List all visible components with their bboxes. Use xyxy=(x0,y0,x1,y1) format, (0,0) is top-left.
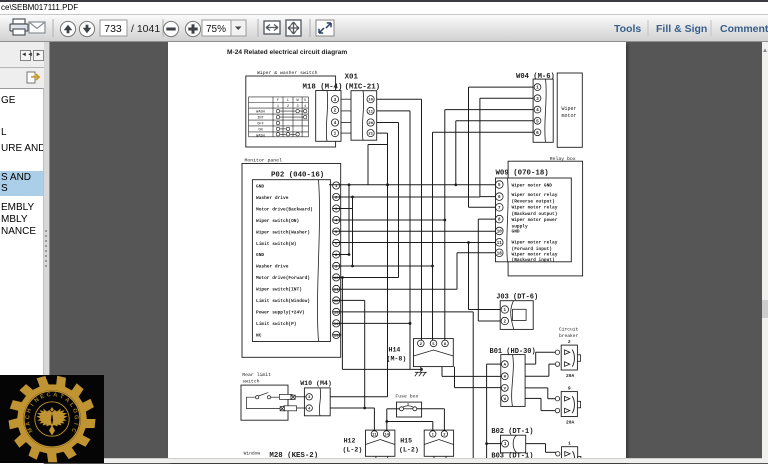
svg-text:5: 5 xyxy=(536,119,539,124)
svg-text:(L-2): (L-2) xyxy=(343,447,363,454)
svg-text:Fill & Sign: Fill & Sign xyxy=(656,23,707,35)
wire v fuse to H15-2 xyxy=(443,409,445,430)
svg-text:H14: H14 xyxy=(389,347,401,354)
wire v W04-6 to H14-5 xyxy=(432,132,434,340)
svg-text:18: 18 xyxy=(497,252,503,256)
wire W09-18 xyxy=(457,252,496,254)
wire W10-3 to v387 xyxy=(330,396,387,398)
wire v H14 out2 xyxy=(454,367,456,388)
wire contact2 to W10 pin4 xyxy=(297,407,306,409)
svg-text:L: L xyxy=(287,99,289,103)
wire v W04-4 to H14-8 xyxy=(444,110,446,341)
page number field xyxy=(100,20,127,36)
svg-text:Fuse box: Fuse box xyxy=(395,394,418,400)
wire v to H15-1 xyxy=(432,422,434,431)
svg-text:Motor drive(Backward): Motor drive(Backward) xyxy=(256,206,313,212)
window top edge xyxy=(0,0,768,2)
svg-text:Wiper motor power: Wiper motor power xyxy=(512,217,558,223)
page down button xyxy=(79,21,94,36)
svg-text:(Backward output): (Backward output) xyxy=(512,211,558,217)
svg-text:4: 4 xyxy=(536,108,539,113)
wire v washer link xyxy=(352,197,354,266)
svg-text:Wiper: Wiper xyxy=(562,106,577,112)
wire W10-4 to H12 xyxy=(330,407,374,409)
svg-text:Wiper switch(ON): Wiper switch(ON) xyxy=(256,218,299,224)
wire v CB2-2 jog xyxy=(540,398,542,410)
svg-text:C: C xyxy=(46,392,51,399)
wire v W09-18 to P02-11 xyxy=(456,253,458,289)
wire B01-A left xyxy=(487,363,502,365)
ground symbol xyxy=(415,367,427,377)
svg-text:14: 14 xyxy=(384,433,389,437)
svg-text:F: F xyxy=(277,99,279,103)
wire B01-W right xyxy=(525,397,541,399)
svg-text:Wiper motor GND: Wiper motor GND xyxy=(512,183,553,189)
wire v P02-10 down xyxy=(341,278,343,370)
svg-text:11: 11 xyxy=(372,433,377,437)
wires M18 to X01 xyxy=(341,99,351,133)
svg-text:Power supply(+24V): Power supply(+24V) xyxy=(256,310,305,316)
svg-text:11: 11 xyxy=(497,242,503,246)
wire P02-5 to W09-10 xyxy=(333,230,496,232)
box Wiper motor xyxy=(557,73,582,147)
title bar xyxy=(0,2,768,14)
wire v shell xyxy=(367,145,369,185)
svg-text:Relay box: Relay box xyxy=(550,156,576,162)
eagle emblem xyxy=(37,407,68,436)
right menu xyxy=(647,20,649,36)
wire fuse left stub xyxy=(387,408,400,410)
svg-text:75%: 75% xyxy=(206,24,226,35)
switch contacts xyxy=(247,393,297,411)
svg-text:3: 3 xyxy=(334,98,337,103)
wire fuse right xyxy=(417,408,445,410)
wire P02-4 xyxy=(333,219,445,221)
lamp H15 (L-2) xyxy=(424,430,453,456)
wire W09-8 xyxy=(478,218,495,220)
wire v fuse to H12-14 xyxy=(386,409,388,430)
svg-text:Wiper motor relay: Wiper motor relay xyxy=(512,252,558,258)
zoom field xyxy=(202,20,231,36)
wire fuse link xyxy=(387,421,433,423)
wire v P02-13 down xyxy=(472,312,474,458)
svg-text:Wiper switch(Washer): Wiper switch(Washer) xyxy=(256,229,310,235)
svg-text:X01: X01 xyxy=(345,74,359,82)
splitter xyxy=(44,42,50,463)
svg-text:INT: INT xyxy=(257,117,264,121)
wire W04-1 xyxy=(469,86,534,88)
wire v X01-11 down xyxy=(409,111,411,370)
svg-text:Wiper motor relay: Wiper motor relay xyxy=(512,192,558,198)
wire v CB1-2 jog xyxy=(548,364,550,376)
svg-text:H15: H15 xyxy=(400,438,412,445)
wire X01-21 xyxy=(377,132,388,134)
svg-text:NC: NC xyxy=(256,333,262,339)
svg-text:Comment: Comment xyxy=(720,23,768,35)
wire CB3 feed xyxy=(546,451,557,453)
svg-text:C: C xyxy=(25,415,31,420)
svg-text:Motor drive(Forward): Motor drive(Forward) xyxy=(256,275,310,281)
vertical scrollbar xyxy=(762,42,768,463)
svg-text:Wiper switch(INT): Wiper switch(INT) xyxy=(256,287,302,293)
svg-text:9: 9 xyxy=(568,386,571,392)
svg-text:21: 21 xyxy=(368,133,373,137)
lamp H12 (L-2) xyxy=(366,430,395,456)
wire W04-3 xyxy=(480,97,533,99)
wire v W09-11 to J03-1 xyxy=(468,243,470,310)
wire v GND link xyxy=(348,186,350,255)
wire X01 shell link xyxy=(368,144,388,146)
wire P02-9 washer xyxy=(333,265,433,267)
fit width icon xyxy=(264,21,280,34)
svg-text:20A: 20A xyxy=(566,420,575,426)
zoom out button xyxy=(163,21,178,36)
box Relay box xyxy=(508,161,582,276)
svg-text:motor: motor xyxy=(562,113,577,119)
wire CB1-1 feed xyxy=(536,351,556,353)
svg-text:GND: GND xyxy=(256,252,264,258)
wire to B01-V xyxy=(455,387,501,389)
wire W04-5 xyxy=(456,120,533,122)
svg-text:breaker: breaker xyxy=(559,333,579,339)
wire mid link xyxy=(342,368,421,370)
fuse F7 xyxy=(400,406,417,411)
svg-text:10: 10 xyxy=(368,99,373,103)
watermark gear logo xyxy=(9,376,96,463)
wire P02-8 GND xyxy=(333,254,349,256)
wire P02-14 xyxy=(333,322,410,324)
svg-text:GND: GND xyxy=(512,229,520,235)
svg-text:Window: Window xyxy=(244,451,261,457)
svg-text:(M-8): (M-8) xyxy=(387,356,407,363)
svg-text:P02 (040-16): P02 (040-16) xyxy=(271,172,324,180)
svg-text:Wiper motor relay: Wiper motor relay xyxy=(512,240,558,246)
wire v X01-10 to H14-2 xyxy=(421,99,423,340)
wire CB1-2 feed xyxy=(549,363,555,365)
toolbar xyxy=(0,14,768,42)
svg-text:A: A xyxy=(53,392,58,399)
wire B01-V right xyxy=(525,387,548,389)
box Monitor panel xyxy=(242,164,341,358)
svg-text:OFF: OFF xyxy=(257,123,263,127)
wire P02-13 +24V xyxy=(333,311,473,313)
svg-text:/ 1041: / 1041 xyxy=(131,23,160,35)
wire J03-1 xyxy=(469,309,501,311)
wire W09-6 stub xyxy=(480,196,496,198)
svg-text:(Backward input): (Backward input) xyxy=(512,257,555,263)
svg-text:ON: ON xyxy=(258,128,262,132)
wire P02-11 to W09-18 via v457 xyxy=(333,288,457,290)
wire v W04-3 to W09-6 xyxy=(479,98,481,196)
svg-text:WASH: WASH xyxy=(256,111,265,115)
wire W04-4 xyxy=(445,109,533,111)
svg-text:2: 2 xyxy=(287,105,289,109)
svg-text:Wiper motor relay: Wiper motor relay xyxy=(512,205,558,211)
svg-text:6: 6 xyxy=(536,131,539,136)
svg-text:(Forward input): (Forward input) xyxy=(512,246,553,252)
svg-text:Limit switch(W): Limit switch(W) xyxy=(256,241,297,247)
svg-text:2: 2 xyxy=(568,339,571,345)
svg-text:H12: H12 xyxy=(344,438,356,445)
svg-text:Monitor panel: Monitor panel xyxy=(245,158,283,164)
svg-text:2: 2 xyxy=(334,109,337,114)
wire v W09-8 to J03-2 xyxy=(477,219,479,321)
wire CB2-2 feed xyxy=(541,410,555,412)
svg-text:M-24 Related electrical circui: M-24 Related electrical circuit diagram xyxy=(227,49,347,56)
svg-text:4: 4 xyxy=(334,121,337,126)
wire B02 right xyxy=(526,443,546,445)
svg-text:Washer drive: Washer drive xyxy=(256,264,289,270)
svg-text:WASH: WASH xyxy=(256,134,265,138)
svg-text:Tools: Tools xyxy=(614,23,641,35)
wire B01-H right xyxy=(525,375,549,377)
svg-text:11: 11 xyxy=(368,110,373,114)
svg-text:W10 (M4): W10 (M4) xyxy=(300,380,332,387)
printer icon xyxy=(10,19,28,35)
wire X01-11 xyxy=(377,110,410,112)
svg-text:3: 3 xyxy=(536,97,539,102)
wire v B01-A B02 B03 xyxy=(486,364,488,458)
svg-text:Rear limit: Rear limit xyxy=(242,372,271,378)
svg-text:switch: switch xyxy=(242,379,259,385)
wire v W04-1 to W09-7 xyxy=(468,87,470,207)
wire P02-12 xyxy=(333,299,365,301)
svg-text:20A: 20A xyxy=(566,373,575,379)
wire v to H12-11 xyxy=(373,408,375,430)
sidebar bookmarks panel xyxy=(0,88,44,464)
wire P02-10 xyxy=(333,277,399,279)
wire W04-6 xyxy=(433,131,534,133)
sidebar header xyxy=(0,42,45,88)
wire B02-1 left xyxy=(487,443,502,445)
svg-text:(L-2): (L-2) xyxy=(399,447,419,454)
wire P02-2 washer xyxy=(333,196,480,198)
horizontal scrollbar xyxy=(49,458,762,463)
wire v H14 gnd xyxy=(420,367,422,368)
svg-text:733: 733 xyxy=(104,23,122,35)
wire X01-20 xyxy=(377,122,399,124)
eagle xyxy=(37,409,68,427)
svg-text:10: 10 xyxy=(497,231,503,235)
svg-text:Limit switch(Window): Limit switch(Window) xyxy=(256,298,310,304)
wire v CB1 up xyxy=(535,352,537,364)
page up button xyxy=(60,21,75,36)
svg-text:1: 1 xyxy=(568,441,571,447)
wire X01-10 xyxy=(377,98,422,100)
svg-text:U: U xyxy=(304,99,306,103)
wire P02-3 xyxy=(333,208,353,210)
envelope icon xyxy=(29,22,45,33)
svg-text:GND: GND xyxy=(256,183,264,189)
svg-text:Wiper & washer switch: Wiper & washer switch xyxy=(257,70,318,76)
wire P02-15 NC stub xyxy=(333,334,342,336)
wire v H14 out1 xyxy=(441,367,443,377)
fit page icon xyxy=(286,20,301,36)
svg-text:1: 1 xyxy=(277,105,279,109)
svg-text:Washer drive: Washer drive xyxy=(256,195,289,201)
wire v W04-5 to GND xyxy=(455,121,457,185)
wire W09-7 xyxy=(469,206,496,208)
svg-text:1: 1 xyxy=(536,86,539,91)
wire v CB3 jog xyxy=(545,444,547,453)
switch contact table xyxy=(249,97,309,137)
wire H14 to B01-H xyxy=(442,375,501,377)
fullscreen icon xyxy=(316,20,334,36)
wire v CB2-1 jog xyxy=(547,388,549,399)
wire v X01-20 to P02-10 xyxy=(398,123,400,278)
svg-text:3: 3 xyxy=(297,105,299,109)
wire v X01-21 to W10-3 xyxy=(387,133,389,397)
svg-text:Circuit: Circuit xyxy=(559,327,579,333)
wire CB2-1 feed xyxy=(548,398,556,400)
svg-text:20: 20 xyxy=(368,122,373,126)
svg-text:4: 4 xyxy=(304,105,306,109)
wire GND rail P02-1 to W09-5 xyxy=(329,184,496,186)
svg-text:Limit switch(P): Limit switch(P) xyxy=(256,321,297,327)
W09 pin labels xyxy=(512,183,558,264)
wire B01-A right xyxy=(525,363,536,365)
switch box Wiper & washer switch xyxy=(246,76,336,147)
wire J03-2 xyxy=(478,320,500,322)
PDF page xyxy=(168,42,626,463)
zoom in button xyxy=(185,21,200,36)
wire P02-6 to W09-11 xyxy=(333,242,496,244)
wire v P02-12 to W10-4 xyxy=(364,300,366,408)
svg-text:1: 1 xyxy=(334,132,337,137)
svg-text:W09 (070-18): W09 (070-18) xyxy=(496,170,549,178)
wire contact1 to W10 pin3 xyxy=(295,396,306,398)
svg-text:(Reverse output): (Reverse output) xyxy=(512,199,555,205)
